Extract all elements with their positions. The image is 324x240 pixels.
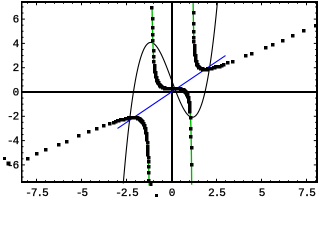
svg-text:7.5: 7.5 [298, 188, 315, 200]
svg-text:6: 6 [13, 15, 19, 27]
svg-text:5: 5 [259, 188, 265, 200]
svg-text:-4: -4 [7, 136, 20, 148]
svg-text:0: 0 [13, 87, 19, 99]
svg-text:0: 0 [169, 188, 175, 200]
svg-text:-7.5: -7.5 [25, 188, 48, 200]
svg-text:-6: -6 [7, 160, 19, 172]
svg-text:-2.5: -2.5 [115, 188, 138, 200]
svg-text:2: 2 [13, 63, 19, 75]
svg-text:2.5: 2.5 [208, 188, 225, 200]
svg-text:-2: -2 [7, 112, 19, 124]
svg-text:-5: -5 [76, 188, 88, 200]
